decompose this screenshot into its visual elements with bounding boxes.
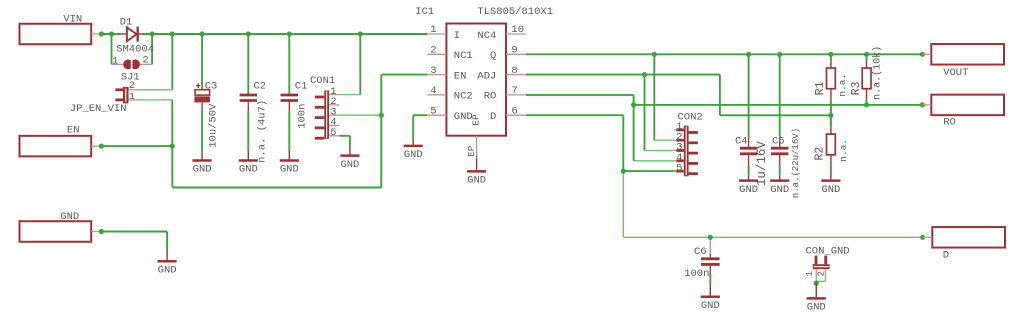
svg-text:R1: R1	[814, 81, 827, 95]
wire JP_EN_VIN pin2 vertical to VIN bus	[171, 34, 173, 90]
svg-text:GND: GND	[739, 184, 758, 196]
svg-text:2: 2	[430, 45, 436, 57]
svg-text:1: 1	[805, 271, 815, 276]
wire CON2 pin4 horizontal	[634, 160, 676, 162]
junction C1/VIN	[287, 31, 292, 36]
wire SJ1 pad1 vertical to VIN bus	[111, 34, 113, 64]
wire CON_GND pin2 down	[824, 276, 826, 281]
wire SJ1 pad2 vertical to VIN bus	[151, 34, 153, 64]
svg-text:2: 2	[142, 55, 148, 67]
port RO	[922, 95, 1004, 129]
wire CON2 pin3 horizontal	[645, 150, 676, 152]
svg-text:EN: EN	[67, 125, 80, 137]
ground below C2	[247, 151, 249, 161]
wire D net from IC1 pin 6	[526, 114, 623, 116]
wire RO net vertical x=633.6	[633, 95, 635, 161]
svg-text:IC1: IC1	[415, 6, 434, 18]
svg-text:GND: GND	[807, 302, 826, 313]
wire C2 bottom to GND	[247, 111, 249, 151]
IC1 right pin 8 ADJ	[477, 65, 526, 83]
ground below R2	[830, 170, 832, 181]
wire CON1 pin5 to GND	[339, 135, 350, 137]
ground below C5	[779, 175, 781, 180]
wire RO net from IC1 pin 7	[526, 94, 634, 96]
svg-text:7: 7	[511, 85, 517, 97]
junction SJ1-2/VIN	[150, 31, 155, 36]
connector CON2	[674, 111, 703, 176]
svg-text:10: 10	[511, 24, 524, 36]
wire GND port net vertical	[166, 232, 168, 252]
wire CON2 pin2 horizontal	[654, 139, 676, 141]
svg-text:R2: R2	[814, 147, 827, 161]
ground below CON_GND	[815, 283, 817, 298]
wire C3 bottom to GND	[201, 110, 203, 151]
junction R1/R2/ADJ	[828, 113, 833, 118]
svg-text:CON2: CON2	[678, 111, 703, 123]
ground at GND port net	[166, 251, 168, 261]
svg-text:NC1: NC1	[454, 50, 473, 62]
resistor R1 n.a.	[814, 61, 848, 99]
svg-text:1u/16V: 1u/16V	[755, 141, 769, 187]
ground at IC1 pin5	[412, 137, 414, 146]
junction CON1-1/VIN	[358, 31, 363, 36]
svg-text:VOUT: VOUT	[943, 67, 968, 79]
wire EN net to IC1 pin 3	[381, 74, 427, 76]
ground below C1	[288, 151, 290, 161]
svg-text:D: D	[490, 111, 496, 123]
wire EN net bottom horizontal	[172, 187, 381, 189]
wire JP_EN_VIN pin1 horizontal	[137, 99, 173, 101]
wire Q net to CON2 pin2 vertical	[653, 54, 655, 140]
wire C4 vertical to Q net	[748, 54, 750, 137]
port D	[923, 227, 1005, 261]
junction CON2-2/Q	[652, 52, 657, 57]
svg-text:9: 9	[511, 45, 517, 57]
junction CON2-3/ADJ	[642, 72, 647, 77]
wire R2 bottom to GND	[830, 166, 832, 170]
junction EN net	[170, 144, 175, 149]
svg-text:GND: GND	[239, 164, 258, 176]
junction C5/Q	[777, 52, 782, 57]
svg-text:C1: C1	[295, 80, 308, 92]
svg-text:GND: GND	[404, 149, 423, 161]
svg-text:R3: R3	[850, 81, 863, 95]
svg-text:5: 5	[330, 127, 336, 139]
junction R1/Q	[828, 52, 833, 57]
junction C4/Q	[746, 52, 751, 57]
junction R3/Q	[864, 52, 869, 57]
wire D net vertical x=623.3 lower	[622, 171, 624, 237]
junction SJ1-1/VIN	[109, 31, 114, 36]
svg-text:C4: C4	[735, 135, 748, 147]
wire GND port to GND symbol	[99, 231, 167, 233]
ground below C3	[201, 151, 203, 161]
connector CON1	[310, 75, 340, 139]
svg-text:I: I	[454, 30, 460, 42]
wire R3 bottom to RO net	[866, 99, 868, 105]
capacitor C3 10u/50V	[194, 80, 219, 147]
junction VIN pin	[99, 31, 104, 36]
wire C1 bottom to GND	[288, 111, 290, 151]
wire CON2 pin5 horizontal	[623, 170, 676, 172]
wire RO net horizontal to RO port	[634, 104, 923, 106]
junction R3/RO	[864, 102, 869, 107]
svg-text:n.a.: n.a.	[837, 74, 848, 97]
wire C2 to VIN bus	[247, 34, 249, 94]
svg-text:D1: D1	[120, 16, 133, 28]
wire C1 to VIN bus	[288, 34, 290, 94]
port EN	[20, 125, 100, 157]
svg-text:1: 1	[129, 91, 135, 103]
wire C3 to VIN bus	[201, 34, 203, 90]
jumper JP_EN_VIN	[70, 80, 137, 115]
IC1 right pin 9 Q	[490, 45, 526, 63]
svg-text:8: 8	[511, 65, 517, 77]
IC1 right pin 6 D	[490, 105, 526, 123]
wire CON1 pin1 horizontal	[340, 94, 361, 96]
wire VIN bus from VIN port to D1 anode	[99, 33, 122, 35]
wire C6 vertical to D net	[709, 237, 711, 254]
svg-text:C2: C2	[254, 80, 267, 92]
junction CON1-3/EN	[379, 113, 384, 118]
svg-text:C6: C6	[694, 246, 707, 258]
port VOUT	[922, 44, 1004, 79]
svg-text:6: 6	[511, 105, 517, 117]
junction C3/VIN	[200, 31, 205, 36]
svg-text:NC2: NC2	[454, 91, 473, 103]
wire IC1 pin5 GND vertical	[412, 115, 414, 137]
wire JP_EN_VIN pin2 horizontal	[137, 89, 173, 91]
junction EN pin	[99, 144, 104, 149]
svg-text:RO: RO	[484, 91, 497, 103]
svg-text:EP: EP	[466, 145, 477, 157]
capacitor C1 100n	[281, 80, 309, 128]
IC1 left pin 5 GND	[427, 105, 472, 123]
svg-text:5: 5	[430, 105, 436, 117]
junction VOUT pin	[920, 52, 925, 57]
svg-text:GND: GND	[158, 265, 177, 277]
wire EN port to EN vertical	[99, 145, 172, 147]
svg-text:n.a.(22u/16V): n.a.(22u/16V)	[791, 128, 801, 198]
wire C5 bottom to GND	[779, 166, 781, 175]
port GND	[20, 211, 100, 242]
svg-text:GND: GND	[60, 211, 79, 223]
wire EN net vertical x=381.3	[380, 75, 382, 188]
junction GND pin	[99, 229, 104, 234]
IC1 left pin 4 NC2	[427, 85, 472, 103]
diode D1 SM4004	[116, 16, 154, 55]
wire CON_GND pin2 horizontal to junction	[816, 280, 825, 282]
svg-text:GND: GND	[770, 184, 789, 196]
svg-text:3: 3	[430, 65, 436, 77]
svg-text:100n: 100n	[297, 104, 309, 129]
wire CON_GND pin1 to GND junction	[815, 278, 817, 283]
svg-text:5: 5	[676, 162, 682, 174]
svg-text:CON1: CON1	[310, 75, 335, 87]
IC1 right pin 7 RO	[484, 85, 526, 103]
ground below CON1 pin5	[349, 146, 351, 156]
wire CON1 pin1 vertical to VIN bus	[359, 34, 361, 95]
wire Q net from IC1 pin 9 to VOUT port	[526, 53, 923, 55]
wire R3 top to Q net	[866, 54, 868, 61]
svg-text:ADJ: ADJ	[477, 70, 496, 82]
resistor R3 n.a.(10k)	[850, 46, 883, 100]
ground below C4	[748, 175, 750, 180]
wire D net vertical x=623.3 upper	[622, 115, 624, 171]
capacitor C4 1u/16V	[735, 135, 769, 186]
svg-text:D: D	[943, 249, 949, 261]
solder jumper SJ1	[112, 55, 153, 84]
wire D net horizontal to D port	[623, 236, 922, 238]
wire CON1 pin5 GND vertical	[349, 136, 351, 146]
IC1 EP pin	[466, 136, 477, 159]
svg-text:NC4: NC4	[477, 30, 496, 42]
connector CON_GND	[805, 245, 850, 277]
svg-text:EN: EN	[454, 70, 467, 82]
svg-text:n.a.(10k): n.a.(10k)	[871, 46, 883, 100]
svg-text:n.a. (4u7): n.a. (4u7)	[257, 100, 269, 163]
svg-text:1: 1	[430, 24, 436, 36]
svg-text:C3: C3	[205, 80, 218, 92]
wire ADJ net vertical x=719.9	[719, 75, 721, 116]
junction D pin	[920, 235, 925, 240]
port VIN	[20, 13, 100, 44]
svg-text:CON_GND: CON_GND	[806, 245, 850, 257]
svg-text:10u/50V: 10u/50V	[208, 103, 220, 148]
svg-text:GND: GND	[821, 184, 840, 196]
svg-text:n.a.: n.a.	[838, 139, 849, 162]
wire R2 top to ADJ junction	[830, 115, 832, 127]
wire IC1 pin5 GND horizontal	[413, 114, 427, 116]
wire CON1 pin3 horizontal to EN net	[340, 114, 382, 116]
wire EN net vertical x=172.3	[171, 100, 173, 188]
svg-text:RO: RO	[943, 117, 956, 129]
wire ADJ net horizontal to R1/R2 junction	[720, 114, 831, 116]
wire VIN bus from D1 cathode to IC1 pin 1	[142, 33, 427, 35]
wire ADJ net to CON2 pin3 vertical	[644, 75, 646, 151]
capacitor C5 n.a.(22u/16V)	[771, 128, 801, 198]
ground below EP	[476, 159, 478, 172]
svg-text:VIN: VIN	[63, 13, 82, 25]
wire R1 top to Q net	[830, 54, 832, 61]
junction C6/D	[708, 235, 713, 240]
junction CON_GND/GND	[814, 281, 819, 286]
junction JP/VIN	[170, 31, 175, 36]
wire R1 bottom to ADJ junction	[830, 99, 832, 115]
svg-text:1: 1	[112, 55, 118, 67]
svg-text:EP: EP	[470, 114, 481, 126]
svg-text:GND: GND	[280, 164, 299, 176]
svg-text:JP_EN_VIN: JP_EN_VIN	[70, 103, 127, 115]
op-amp/regulator IC1 TLS805/810X1 box	[415, 6, 553, 136]
junction C2/VIN	[246, 31, 251, 36]
svg-text:GND: GND	[701, 300, 720, 312]
svg-text:100n: 100n	[684, 268, 709, 280]
junction RO pin	[920, 102, 925, 107]
svg-text:GND: GND	[467, 175, 486, 187]
junction CON2-5/D	[621, 169, 626, 174]
IC1 right pin 10 NC4	[477, 24, 526, 42]
IC1 left pin 1 I	[427, 24, 460, 42]
svg-text:TLS805/810X1: TLS805/810X1	[477, 6, 553, 18]
junction RO corner	[631, 102, 636, 107]
wire C5 vertical to Q net	[779, 54, 781, 137]
capacitor C6 100n	[684, 246, 719, 280]
svg-text:2: 2	[816, 271, 826, 276]
resistor R2 n.a.	[814, 128, 850, 166]
capacitor C2 n.a. (4u7)	[240, 80, 269, 162]
svg-text:C5: C5	[772, 135, 785, 147]
svg-text:GND: GND	[193, 164, 212, 176]
IC1 left pin 3 EN	[427, 65, 466, 83]
svg-text:4: 4	[430, 85, 436, 97]
wire ADJ net from IC1 pin 8	[526, 74, 720, 76]
svg-text:GND: GND	[340, 159, 359, 171]
ground below C6	[709, 284, 711, 297]
wire C4 bottom to GND	[748, 166, 750, 175]
svg-text:Q: Q	[490, 50, 496, 62]
IC1 left pin 2 NC1	[427, 45, 472, 63]
wire C6 bottom to GND	[709, 274, 711, 284]
